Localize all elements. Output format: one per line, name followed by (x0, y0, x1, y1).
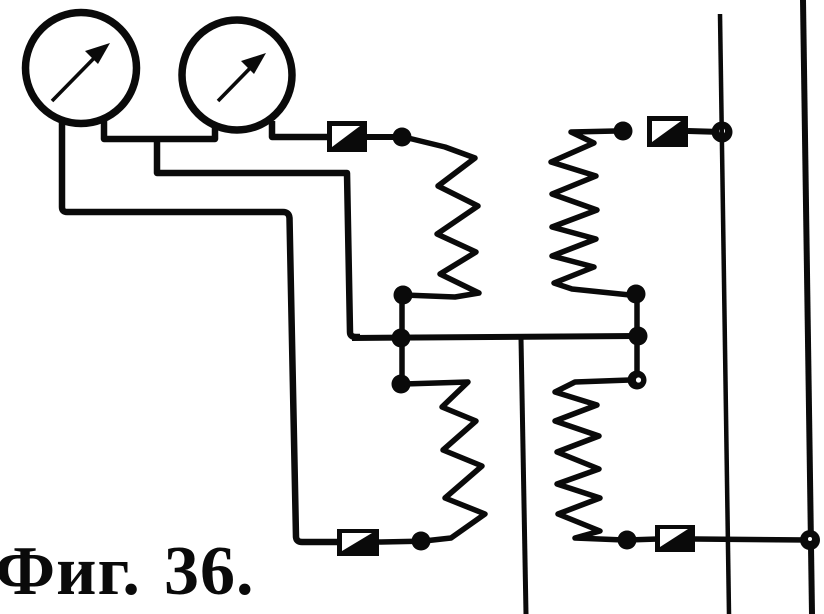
junction on bus B (800, 530, 820, 550)
junction on bus A (712, 122, 733, 143)
caption Fig. 36 (0, 532, 141, 612)
central vertical wire (521, 338, 526, 614)
node dot (412, 532, 431, 551)
wire from P1 left lead down and across to lower-left fuse (62, 123, 340, 542)
resistor R4 (555, 380, 630, 540)
wire branch down to middle bus (157, 140, 360, 337)
wire node to fuse F4 (627, 539, 658, 540)
bus A vertical (720, 14, 729, 614)
resistor R2 with top wire (551, 131, 630, 295)
node dot (614, 122, 633, 141)
fuse F4 (655, 525, 695, 552)
node dot (618, 531, 637, 550)
node dot (394, 286, 413, 305)
wire P1 right lead to P2 left lead (104, 121, 215, 139)
wire F4 to bus B (695, 539, 808, 540)
node dot (392, 329, 411, 348)
wire F1 to node (367, 134, 396, 140)
middle horizontal bus (352, 336, 638, 338)
bus B vertical (803, 0, 812, 614)
node dot (629, 327, 648, 346)
gauge P1 (26, 13, 137, 124)
fuse F1 (327, 121, 367, 152)
resistor R3 (404, 382, 485, 541)
node dot (392, 375, 411, 394)
fuse F3 (337, 529, 379, 556)
fuse F2 (647, 116, 688, 147)
open node (628, 371, 647, 390)
wire left column (399, 295, 405, 384)
wire fuse F3 to R3 (379, 541, 430, 542)
resistor R1 (404, 138, 479, 297)
gauge P2 (182, 20, 292, 130)
node dot (393, 128, 412, 147)
wire F2 to bus A (688, 131, 722, 132)
wire right column (634, 294, 640, 380)
node dot (627, 285, 646, 304)
wire P2 right lead to fuse F1 (272, 121, 330, 137)
